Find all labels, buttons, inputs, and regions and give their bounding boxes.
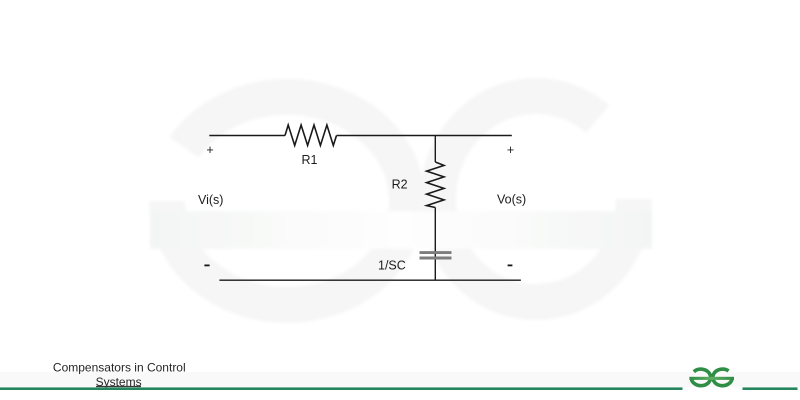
svg-text:R2: R2 [392,177,408,191]
light band above footer line [0,372,800,387]
label - (left) [204,265,209,267]
wire top-left segment [209,135,285,137]
wire R2 to capacitor and to bottom [434,208,436,281]
svg-text:Vo(s): Vo(s) [497,193,526,207]
svg-text:+: + [206,143,213,157]
capacitor 1/SC plates [420,253,452,258]
left G arc [691,369,710,386]
resistor R1 [285,125,337,146]
caption underline [96,386,141,388]
footer green line (left of logo) [0,387,683,390]
footer green line (right of logo) [743,387,798,390]
label - (right) [508,265,513,267]
svg-text:+: + [507,143,514,157]
GeeksforGeeks logo [689,369,734,386]
wire top-right segment [337,135,512,137]
resistor R2 [427,162,444,208]
wire bottom [219,279,521,281]
right G arc [713,369,732,386]
svg-text:1/SC: 1/SC [378,259,406,273]
GeeksforGeeks watermark [150,96,652,305]
wire branch down from node [434,136,436,163]
svg-text:Compensators in Control: Compensators in Control [53,361,186,375]
logo crossbar [689,377,734,380]
svg-text:Vi(s): Vi(s) [198,193,223,207]
svg-text:R1: R1 [302,153,318,167]
